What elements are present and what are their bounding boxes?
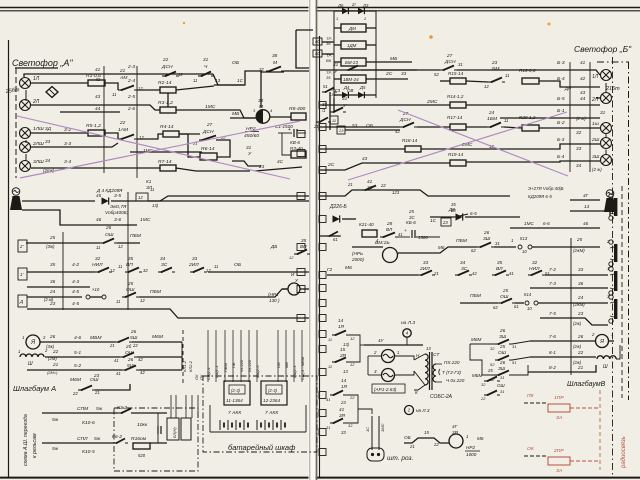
wire 4C slant — [255, 167, 302, 171]
wire — [270, 116, 291, 118]
svg-text:ПК: ПК — [199, 374, 204, 380]
svg-text:ОШ: ОШ — [126, 287, 135, 293]
svg-text:24: 24 — [49, 289, 56, 294]
contact — [488, 78, 505, 84]
wire — [319, 190, 510, 196]
lamp — [601, 93, 612, 104]
svg-text:34: 34 — [576, 163, 582, 168]
svg-text:45: 45 — [96, 193, 102, 198]
svg-text:41: 41 — [114, 358, 119, 363]
terminal — [313, 50, 322, 57]
wire R2-R3 link — [167, 93, 169, 107]
svg-text:33: 33 — [192, 256, 198, 261]
svg-text:10кк: 10кк — [137, 422, 148, 428]
None — [319, 272, 326, 279]
svg-text:СОБС-2А: СОБС-2А — [430, 394, 453, 400]
svg-text:520: 520 — [138, 453, 146, 458]
svg-text:1ДМ: 1ДМ — [347, 43, 357, 48]
svg-text:R7-14: R7-14 — [158, 159, 172, 165]
svg-text:12: 12 — [118, 244, 123, 249]
resistor — [450, 124, 466, 130]
wire H to winding — [414, 354, 425, 360]
svg-text:216т: 216т — [605, 86, 620, 92]
svg-text:1: 1 — [466, 434, 468, 439]
svg-text:ЭвО,7Я: ЭвО,7Я — [110, 204, 127, 209]
svg-text:R5-1,2: R5-1,2 — [86, 123, 101, 129]
svg-text:23: 23 — [577, 311, 584, 316]
svg-text:ПБ: ПБ — [231, 362, 236, 368]
svg-text:ОШ: ОШ — [497, 383, 505, 388]
svg-text:35: 35 — [301, 238, 307, 243]
wire — [31, 167, 160, 169]
diode — [342, 8, 348, 14]
wire — [605, 134, 607, 138]
lamp — [20, 78, 31, 89]
None — [319, 331, 326, 338]
svg-text:МБМ: МБМ — [90, 335, 102, 341]
svg-text:26: 26 — [127, 357, 134, 362]
wire — [25, 90, 27, 101]
svg-text:1АМ: 1АМ — [118, 127, 129, 133]
None — [319, 167, 326, 174]
svg-text:(2ж): (2ж) — [573, 344, 582, 349]
diode — [333, 215, 340, 222]
svg-text:35: 35 — [497, 260, 503, 265]
cabinet cable verticals — [170, 395, 172, 418]
svg-text:51: 51 — [323, 84, 328, 89]
svg-text:R20-1,2: R20-1,2 — [519, 115, 536, 120]
svg-text:(АР1-2.63): (АР1-2.63) — [374, 387, 397, 392]
svg-text:ПБМ: ПБМ — [130, 233, 142, 239]
svg-text:К6-2: К6-2 — [112, 434, 122, 440]
contact 41-32 — [362, 186, 379, 192]
wire — [31, 143, 118, 147]
None — [319, 300, 326, 307]
svg-text:М6: М6 — [345, 265, 352, 271]
svg-text:СЩ1-1: СЩ1-1 — [214, 365, 219, 378]
wire term b — [322, 53, 334, 55]
svg-text:11: 11 — [504, 118, 508, 123]
wire to 2' strip — [532, 246, 600, 248]
svg-text:22: 22 — [119, 120, 126, 125]
svg-text:0х.220: 0х.220 — [247, 359, 252, 372]
svg-text:ПК: ПК — [527, 393, 535, 399]
crank contacts x10 — [86, 295, 90, 299]
svg-text:R6-14: R6-14 — [201, 146, 215, 152]
diode — [358, 8, 364, 14]
wire — [22, 200, 95, 202]
wire — [366, 78, 376, 80]
svg-text:31: 31 — [203, 57, 209, 62]
svg-text:62: 62 — [471, 248, 476, 253]
right boundary dash-dot line — [612, 57, 614, 477]
svg-text:15: 15 — [340, 347, 346, 352]
svg-text:1ВМ-24: 1ВМ-24 — [343, 77, 359, 82]
svg-text:26: 26 — [499, 328, 506, 333]
page border left — [8, 40, 10, 477]
svg-text:радиосвязь: радиосвязь — [621, 436, 627, 469]
orange specks — [548, 23, 551, 26]
svg-text:1С: 1С — [365, 427, 370, 432]
wire — [45, 356, 120, 358]
device circle — [405, 406, 414, 415]
svg-text:11: 11 — [328, 337, 332, 342]
wire — [366, 44, 376, 46]
wire — [358, 409, 372, 414]
svg-text:1': 1' — [607, 266, 610, 271]
wire — [605, 150, 607, 155]
svg-text:25: 25 — [576, 237, 583, 242]
svg-text:12: 12 — [484, 84, 489, 89]
svg-text:22: 22 — [380, 183, 386, 188]
svg-text:КЛ2-2: КЛ2-2 — [188, 360, 193, 372]
svg-text:11: 11 — [112, 92, 116, 97]
wire VL to cap — [397, 236, 410, 238]
svg-text:41: 41 — [580, 60, 586, 65]
contact — [120, 353, 137, 359]
svg-text:НР2: НР2 — [466, 445, 475, 450]
svg-text:1: 1 — [18, 349, 20, 354]
svg-text:1Я: 1Я — [338, 324, 345, 329]
svg-text:1ПР: 1ПР — [554, 395, 564, 401]
svg-text:1БМ: 1БМ — [487, 116, 498, 122]
svg-text:40: 40 — [315, 51, 320, 56]
None — [319, 146, 326, 153]
svg-text:Светофор „А": Светофор „А" — [12, 58, 73, 68]
wire to fold — [284, 70, 309, 72]
svg-text:+: + — [288, 127, 291, 133]
svg-text:Б-5: Б-5 — [557, 96, 565, 102]
crossing line B1 (pencil) — [348, 112, 567, 180]
svg-text:-36: -36 — [330, 93, 336, 97]
dash boundary shlagbaum A — [182, 330, 184, 384]
wire 1MC row — [130, 151, 202, 153]
wire — [27, 286, 90, 288]
battery — [220, 420, 248, 430]
cable columns right — [569, 62, 571, 172]
svg-text:К10-6: К10-6 — [82, 420, 95, 426]
lamp — [601, 123, 612, 134]
svg-text:52: 52 — [434, 72, 439, 77]
resistor — [133, 443, 150, 449]
resistor — [522, 78, 539, 84]
wire — [209, 405, 211, 432]
svg-text:БМ-23: БМ-23 — [345, 60, 359, 65]
svg-text:41: 41 — [339, 407, 345, 412]
svg-text:2': 2' — [606, 239, 610, 244]
wire — [395, 371, 414, 375]
wire PBM — [117, 242, 140, 244]
shlagbaum V dashed bracket — [621, 186, 623, 398]
box ARG-2.63 — [372, 384, 405, 393]
svg-text:ОБ: ОБ — [276, 362, 281, 368]
wire OSh right — [137, 356, 182, 358]
svg-text:41: 41 — [116, 371, 121, 376]
svg-text:2-6: 2-6 — [127, 106, 135, 112]
coil — [597, 356, 616, 359]
svg-text:61: 61 — [333, 237, 338, 242]
wire — [319, 148, 405, 150]
wire R16 to block — [150, 442, 167, 444]
svg-text:31: 31 — [326, 425, 330, 430]
svg-text:11: 11 — [116, 299, 120, 304]
svg-text:80: 80 — [451, 208, 456, 213]
wire — [530, 356, 596, 358]
svg-text:13): 13) — [152, 203, 159, 208]
svg-text:МБ: МБ — [284, 362, 289, 368]
svg-text:Б-3: Б-3 — [557, 60, 565, 66]
svg-text:1МС: 1МС — [205, 104, 216, 110]
svg-text:(НРЬ: (НРЬ — [352, 251, 363, 256]
svg-text:34: 34 — [45, 158, 51, 163]
svg-text:СЩ-4 - МБМ: СЩ-4 - МБМ — [300, 356, 305, 380]
svg-text:11: 11 — [332, 118, 336, 123]
svg-text:1МС: 1МС — [524, 221, 534, 226]
lamp — [20, 100, 31, 111]
wire — [90, 296, 102, 298]
svg-text:4-3: 4-3 — [72, 279, 79, 285]
svg-text:Шлагбаум А: Шлагбаум А — [13, 384, 56, 393]
wire R16 to lamp2 — [539, 81, 600, 87]
wire down — [333, 98, 335, 112]
svg-text:21: 21 — [313, 124, 319, 129]
svg-text:4Г: 4Г — [452, 424, 458, 429]
svg-text:(НР1: (НР1 — [268, 292, 279, 297]
diode — [456, 213, 463, 220]
contact — [118, 135, 137, 141]
svg-text:М6М: М6М — [471, 337, 481, 342]
svg-text:R19-14: R19-14 — [448, 152, 464, 157]
wire — [334, 78, 341, 80]
contact top — [322, 88, 337, 94]
wire — [436, 381, 442, 383]
wire stack link — [470, 344, 495, 375]
svg-text:31: 31 — [500, 375, 504, 380]
contact 31 U — [330, 108, 346, 114]
svg-text:41: 41 — [326, 397, 330, 402]
wire — [27, 271, 95, 273]
terminal — [441, 218, 451, 226]
wire — [375, 11, 377, 98]
wire — [417, 126, 450, 128]
svg-text:27: 27 — [446, 53, 453, 58]
page border top double line — [0, 7, 640, 9]
wire — [319, 69, 417, 71]
wire — [296, 30, 309, 68]
svg-text:R4-14: R4-14 — [160, 124, 174, 130]
device circle — [382, 350, 395, 363]
svg-text:6-5: 6-5 — [470, 211, 477, 216]
svg-text:1: 1 — [611, 332, 613, 337]
svg-text:24: 24 — [488, 110, 495, 115]
wire — [368, 374, 381, 376]
wire — [334, 44, 341, 46]
svg-text:35: 35 — [50, 262, 56, 267]
contact — [118, 86, 137, 92]
None — [319, 392, 326, 399]
None — [297, 150, 305, 157]
svg-text:22: 22 — [433, 442, 439, 447]
svg-text:В6: В6 — [326, 58, 332, 63]
svg-text:21: 21 — [433, 271, 439, 276]
svg-text:СПЛ: СПЛ — [77, 436, 88, 442]
svg-text:4-5: 4-5 — [72, 289, 79, 295]
svg-text:23: 23 — [93, 373, 100, 378]
svg-text:41: 41 — [367, 179, 373, 184]
svg-text:46: 46 — [96, 217, 102, 222]
svg-text:130 ): 130 ) — [269, 298, 280, 303]
svg-text:2б: 2б — [125, 344, 132, 349]
wire — [137, 134, 163, 139]
device circle — [382, 369, 395, 382]
svg-text:на Л.3: на Л.3 — [416, 408, 430, 413]
svg-text:Э+27Я Vобр:40|Б: Э+27Я Vобр:40|Б — [528, 186, 564, 191]
contact — [330, 391, 346, 397]
wire — [27, 369, 122, 371]
wire — [22, 210, 137, 225]
wire — [296, 29, 313, 31]
svg-text:2Л: 2Л — [32, 99, 40, 105]
svg-text:25: 25 — [502, 288, 509, 293]
svg-text:Б-4: Б-4 — [557, 76, 565, 82]
None — [341, 75, 366, 83]
terminal strip — [609, 295, 613, 299]
wire — [455, 214, 468, 217]
svg-text:ГЗ: ГЗ — [335, 88, 340, 93]
svg-text:2': 2' — [19, 244, 23, 249]
svg-text:34: 34 — [460, 260, 466, 265]
svg-text:23: 23 — [340, 400, 346, 405]
wire row B-5 — [466, 104, 600, 106]
plug socket — [367, 448, 384, 461]
svg-text:КБ-6: КБ-6 — [406, 220, 416, 225]
wire PK right — [570, 407, 600, 409]
svg-text:36: 36 — [50, 279, 56, 284]
svg-text:1500: 1500 — [418, 235, 428, 240]
svg-text:К13: К13 — [520, 236, 528, 241]
wire — [515, 302, 524, 304]
svg-text:пх.220: пх.220 — [239, 359, 244, 372]
svg-text:23: 23 — [338, 128, 344, 133]
wire R5 out — [105, 133, 118, 139]
svg-text:5ж: 5ж — [96, 406, 103, 412]
wire — [179, 133, 200, 135]
svg-text:на Л.3: на Л.3 — [401, 320, 415, 326]
svg-text:R18-14: R18-14 — [402, 138, 418, 143]
bell — [606, 190, 614, 198]
svg-text:R8-400: R8-400 — [289, 106, 305, 112]
bell — [12, 188, 20, 196]
capacitor — [412, 230, 415, 238]
wire to fold y272 — [208, 271, 309, 273]
svg-text:1000: 1000 — [466, 452, 477, 457]
svg-text:1ЛШ: 1ЛШ — [33, 126, 44, 132]
wire rail right — [361, 69, 440, 71]
wire diode to fold — [111, 200, 309, 202]
svg-text:1С: 1С — [430, 218, 437, 223]
svg-text:КЛ1-2: КЛ1-2 — [182, 360, 187, 372]
svg-text:25: 25 — [49, 235, 56, 240]
contact — [487, 123, 504, 129]
wire — [334, 61, 341, 63]
svg-text:21: 21 — [94, 390, 100, 395]
svg-text:42: 42 — [138, 357, 143, 362]
svg-text:3Я: 3Я — [339, 413, 346, 418]
svg-text:10: 10 — [527, 306, 532, 311]
wire — [24, 74, 213, 77]
svg-text:31: 31 — [495, 241, 500, 246]
resistor — [522, 125, 539, 131]
svg-text:ОБ: ОБ — [232, 60, 240, 66]
svg-text:26: 26 — [130, 329, 137, 334]
svg-text:44: 44 — [95, 106, 101, 111]
crossing line A1 (pencil) — [17, 116, 290, 179]
svg-text:22: 22 — [52, 349, 59, 354]
contact 5Sh mid — [495, 371, 512, 377]
wire — [530, 340, 595, 342]
svg-text:4-2: 4-2 — [72, 262, 79, 268]
transformer box 11-1364 — [224, 381, 250, 405]
wire — [148, 196, 309, 201]
wire — [404, 438, 449, 443]
svg-text:R1-0,6: R1-0,6 — [86, 73, 101, 79]
terminal strip — [609, 240, 613, 244]
svg-text:2-5: 2-5 — [127, 94, 135, 100]
contact — [158, 268, 175, 274]
wire — [460, 302, 498, 304]
contact — [118, 409, 134, 415]
svg-text:Светофор „Б": Светофор „Б" — [574, 44, 632, 54]
svg-text:25: 25 — [487, 368, 493, 373]
wire — [27, 309, 309, 318]
svg-text:схема А.Ш. переезда: схема А.Ш. переезда — [23, 414, 29, 466]
contact — [418, 271, 435, 277]
None — [319, 285, 326, 292]
svg-text:(2-3): (2-3) — [231, 388, 241, 393]
wire vert — [329, 92, 331, 130]
right-half left bus line — [319, 36, 321, 477]
svg-text:К10-5: К10-5 — [82, 449, 95, 455]
wire motor to term — [609, 340, 614, 342]
resistor — [291, 113, 306, 120]
svg-text:7-5: 7-5 — [549, 311, 556, 317]
svg-text:32: 32 — [532, 260, 538, 265]
svg-text:31: 31 — [512, 344, 516, 349]
svg-text:11: 11 — [328, 364, 332, 369]
wire — [31, 132, 88, 134]
None — [319, 449, 326, 456]
svg-text:2ЛШ: 2ЛШ — [32, 141, 44, 147]
contact — [294, 250, 310, 256]
svg-text:R3-1,2: R3-1,2 — [158, 100, 173, 106]
svg-text:(2 ж): (2 ж) — [592, 167, 602, 172]
svg-text:(2М): (2М) — [48, 356, 57, 361]
svg-text:22: 22 — [132, 343, 138, 348]
svg-text:1Л: 1Л — [33, 76, 40, 82]
svg-text:33: 33 — [423, 260, 429, 265]
svg-text:46: 46 — [583, 221, 589, 226]
svg-text:25: 25 — [408, 209, 414, 214]
contact — [95, 268, 112, 274]
svg-text:12: 12 — [178, 72, 183, 77]
svg-text:35: 35 — [128, 256, 134, 261]
wire — [40, 341, 115, 343]
svg-text:51: 51 — [512, 360, 516, 365]
wire d8 — [430, 216, 455, 218]
svg-text:7-2: 7-2 — [549, 267, 556, 273]
svg-text:41: 41 — [95, 67, 101, 72]
svg-text:4С: 4С — [277, 159, 284, 164]
